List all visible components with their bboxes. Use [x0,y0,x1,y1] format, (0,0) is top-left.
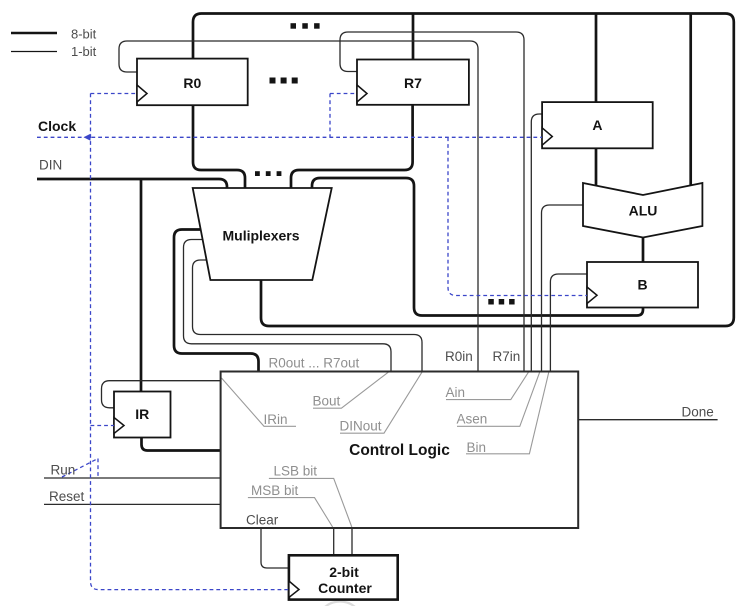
svg-text:Control Logic: Control Logic [349,442,450,459]
svg-text:Clear: Clear [246,513,279,528]
svg-text:R0: R0 [183,75,201,91]
svg-text:1-bit: 1-bit [71,44,97,59]
svg-text:Bin: Bin [467,440,487,455]
svg-text:B: B [637,277,647,293]
svg-text:Done: Done [682,405,714,420]
svg-text:DINout: DINout [340,419,382,434]
svg-text:R7in: R7in [493,349,521,364]
svg-text:DIN: DIN [39,158,62,173]
svg-text:Ain: Ain [446,385,466,400]
svg-text:A: A [592,117,602,133]
svg-text:R0in: R0in [445,349,473,364]
svg-text:Asen: Asen [457,412,488,427]
svg-text:Reset: Reset [49,489,85,504]
svg-text:LSB bit: LSB bit [274,464,318,479]
svg-text:8-bit: 8-bit [71,27,97,42]
svg-text:Counter: Counter [318,580,372,596]
svg-text:Run: Run [51,463,76,478]
svg-text:R0out ... R7out: R0out ... R7out [269,356,360,371]
svg-text:MSB bit: MSB bit [251,483,299,498]
svg-text:Clock: Clock [38,118,76,134]
svg-text:IR: IR [135,406,149,422]
svg-text:Muliplexers: Muliplexers [222,228,299,244]
svg-text:ALU: ALU [629,203,658,219]
svg-text:R7: R7 [404,75,422,91]
svg-text:2-bit: 2-bit [329,564,359,580]
svg-text:IRin: IRin [264,412,288,427]
svg-text:Bout: Bout [313,394,341,409]
